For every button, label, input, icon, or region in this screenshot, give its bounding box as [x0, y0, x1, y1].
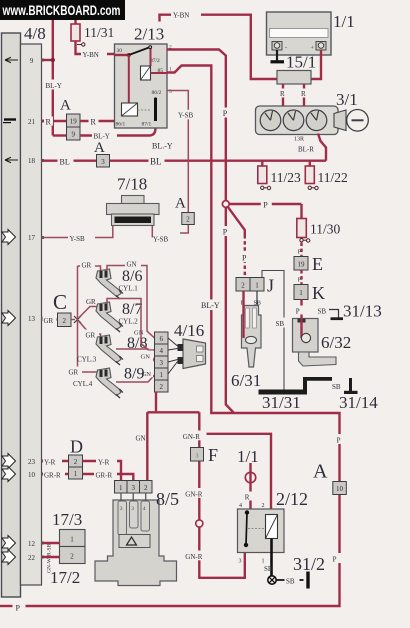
svg-text:R: R — [46, 118, 52, 127]
4/16 plug tabs — [178, 344, 184, 351]
label BL-Y vertical — [45, 80, 69, 90]
svg-text:6/31: 6/31 — [231, 371, 261, 390]
component 17/3 cell — [60, 530, 86, 547]
wire Y-R to 8/5 — [83, 461, 122, 481]
wire P horizontal to fuses — [229, 203, 301, 205]
svg-text:P: P — [333, 555, 337, 563]
svg-text:GN: GN — [136, 435, 146, 443]
8/5 channels — [118, 501, 127, 535]
fuse 11/22 — [305, 166, 314, 184]
wire P dashed to K — [300, 270, 302, 285]
svg-text:GR-R: GR-R — [44, 472, 61, 480]
battery minus ground wire — [276, 50, 278, 61]
connector 4/16 stack — [155, 332, 169, 392]
block arrow pin 17 — [2, 230, 16, 245]
wire SB from 2/12 pin1 — [270, 553, 273, 577]
battery terminal left — [272, 42, 282, 51]
banner www.BRICKBOARD.com — [0, 0, 125, 20]
svg-text:2: 2 — [159, 383, 163, 391]
wire GN 8/9 — [116, 375, 155, 382]
svg-text:A: A — [313, 461, 328, 483]
svg-text:SB: SB — [286, 577, 295, 585]
svg-text:P: P — [296, 307, 300, 315]
svg-text:9: 9 — [30, 57, 34, 65]
wire P relay pin2 vertical — [167, 50, 234, 413]
connector below 11/31 — [77, 44, 82, 46]
ECU 4/8 pin strip — [21, 44, 42, 585]
component 17/2 cell — [60, 547, 86, 564]
component 8/5 body — [95, 500, 177, 586]
connector K box 1 — [294, 285, 308, 300]
label P 1 — [220, 108, 231, 118]
wire Y-SB 7/18 right leg — [151, 226, 153, 238]
label Y-BN — [81, 50, 107, 60]
block arrow pin 10 — [2, 467, 16, 482]
wire BL line to ignition — [110, 159, 327, 161]
svg-text:2: 2 — [262, 503, 265, 509]
svg-text:1: 1 — [74, 470, 78, 478]
svg-text:1/1: 1/1 — [237, 447, 259, 466]
battery plus wire — [311, 50, 321, 79]
svg-text:Y-BN: Y-BN — [83, 51, 99, 59]
svg-text:C: C — [53, 290, 67, 314]
wire Y-SB pin17 — [42, 237, 68, 239]
wire SB to 31/2 — [277, 579, 304, 581]
8/5 pin stubs — [121, 493, 146, 501]
ground junction circle-X — [268, 576, 276, 584]
relay wire down to coil2 — [128, 55, 130, 104]
ignition dial 3 — [306, 110, 327, 131]
component 6/31 — [242, 306, 262, 368]
svg-text:1: 1 — [70, 536, 74, 544]
wire GR stub 8/8 — [79, 322, 101, 342]
label P 2 — [220, 226, 231, 236]
label BL-Y long — [200, 300, 225, 311]
component 7/18 — [107, 196, 160, 226]
svg-text:19: 19 — [298, 261, 306, 269]
label Y-R left — [43, 456, 62, 466]
svg-text:1: 1 — [255, 282, 259, 290]
svg-text:2: 2 — [186, 216, 190, 224]
wire pin12 — [42, 542, 60, 544]
wire Y-R pin23 — [42, 460, 69, 462]
svg-text:17/2: 17/2 — [50, 568, 80, 587]
label GR 8/8 — [84, 330, 99, 339]
svg-text:86/1: 86/1 — [116, 122, 126, 128]
svg-text:31/2: 31/2 — [293, 554, 325, 574]
label SB long — [274, 318, 289, 328]
ignition dial 1 — [260, 110, 281, 131]
label BL-Y — [92, 131, 117, 141]
svg-text:18: 18 — [28, 157, 36, 165]
wire vertical x53 — [52, 20, 54, 136]
svg-text:2/13: 2/13 — [134, 25, 164, 44]
svg-text:Y-SB: Y-SB — [178, 112, 194, 120]
connector below 11/30 — [300, 239, 303, 242]
wire pin22 — [42, 556, 60, 558]
svg-text:P: P — [16, 604, 21, 613]
svg-text:E: E — [312, 254, 323, 274]
svg-text:P: P — [223, 109, 228, 118]
svg-text:SB: SB — [318, 308, 327, 316]
arrow pin 9 — [5, 57, 18, 62]
svg-text:13: 13 — [28, 315, 36, 323]
svg-text:1: 1 — [159, 371, 163, 379]
relay coil 1 — [141, 66, 151, 80]
wire GN-R leg — [199, 412, 245, 578]
svg-text:GR: GR — [44, 317, 54, 325]
connector D box 2 — [69, 455, 83, 467]
wire GR pin13 — [42, 318, 58, 320]
svg-text:A: A — [94, 140, 105, 156]
relay wire 30 in — [115, 54, 129, 56]
label R — [44, 117, 53, 126]
svg-text:9: 9 — [71, 131, 75, 139]
wire GR stub 8/7 — [79, 307, 101, 318]
wire R A19 to relay — [80, 120, 115, 122]
label P 3 — [261, 200, 272, 210]
svg-text:3: 3 — [131, 484, 135, 492]
label GN-R top — [182, 431, 207, 441]
wire ignition out BL-R — [318, 134, 326, 161]
svg-text:2: 2 — [241, 282, 245, 290]
svg-text:P: P — [223, 227, 228, 236]
svg-text:GN-R: GN-R — [185, 553, 202, 561]
svg-text:K: K — [312, 283, 325, 303]
wire GN leg to 8/5 — [146, 412, 148, 481]
wire R left to ignition — [282, 84, 284, 107]
junction dot pin9 — [51, 58, 55, 62]
6/32 circle — [301, 333, 310, 342]
wire 1/1 stub — [249, 463, 251, 509]
connector E box 19 — [294, 257, 308, 271]
wire GN 8/8 — [116, 349, 155, 362]
svg-text:4/16: 4/16 — [174, 321, 204, 340]
label GR-R left — [43, 469, 65, 479]
svg-text:R: R — [245, 493, 250, 501]
wire SB to 31/13 — [329, 310, 339, 318]
stub fuse 11/30 — [300, 204, 302, 219]
wire R pin21 to A19 — [42, 120, 67, 122]
label GN 8/9 — [141, 368, 153, 377]
2/12 dashed link — [248, 528, 266, 530]
svg-text:7/18: 7/18 — [117, 175, 147, 194]
4/16 pin links — [168, 338, 178, 374]
relay 2/12 box — [238, 509, 285, 553]
svg-text:8/7: 8/7 — [122, 301, 142, 318]
svg-text:1/1: 1/1 — [333, 12, 355, 31]
svg-text:BL-R: BL-R — [298, 146, 314, 154]
svg-text:P: P — [263, 201, 268, 210]
svg-text:Y-R: Y-R — [98, 459, 110, 467]
2/12 coil — [266, 515, 278, 539]
svg-text:2: 2 — [62, 317, 66, 325]
label GR pin13 — [43, 315, 57, 325]
junction ring P — [222, 201, 229, 208]
svg-text:3: 3 — [159, 359, 163, 367]
label GN-R low — [184, 551, 209, 561]
label SB 31/2 — [285, 575, 300, 585]
ground 31/13 bar — [331, 317, 344, 320]
ground 31/14 — [349, 378, 352, 391]
svg-text:Y-R: Y-R — [44, 459, 56, 467]
wire GN 8/7 — [107, 299, 155, 351]
svg-text:1: 1 — [119, 484, 123, 492]
wire R right to ignition — [303, 84, 305, 107]
label Y-SB vertical — [177, 110, 199, 120]
wire BL-Y A9 to relay 87/1 — [80, 120, 156, 136]
junction ring GN-R — [196, 520, 203, 527]
svg-text:10: 10 — [28, 471, 36, 479]
svg-text:P: P — [242, 254, 247, 263]
relay junction dot — [127, 53, 131, 57]
mark pin 21 — [4, 118, 16, 120]
svg-text:SB: SB — [264, 565, 273, 573]
label GR-R right — [94, 469, 117, 479]
svg-text:12: 12 — [28, 540, 36, 548]
svg-text:11/23: 11/23 — [271, 170, 301, 185]
fuse 11/31 — [71, 24, 80, 41]
wire SB route around — [262, 271, 284, 390]
fuse 11/23 — [258, 166, 267, 184]
wire Y-BN fuse to relay 30 — [76, 41, 115, 54]
svg-text:R: R — [91, 118, 97, 127]
svg-text:A: A — [175, 196, 186, 212]
fuse 11/30 — [297, 219, 307, 238]
svg-text:GN: GN — [127, 261, 137, 269]
label GN 8/8 — [140, 351, 153, 360]
6/32 wire inside — [300, 319, 302, 339]
svg-text:CYL.3: CYL.3 — [77, 356, 97, 364]
fusebox 15/1 — [277, 71, 311, 85]
wire Y-BN top — [160, 15, 278, 79]
svg-text:3: 3 — [196, 454, 199, 460]
svg-text:GN-R: GN-R — [183, 433, 200, 441]
svg-text:D: D — [70, 437, 83, 457]
svg-text:CYL.2: CYL.2 — [119, 318, 139, 326]
svg-text:GN-W: GN-W — [47, 557, 53, 573]
svg-text:2: 2 — [74, 458, 78, 466]
label GN-R mid — [184, 488, 209, 498]
block arrow pin 12 — [2, 536, 16, 551]
svg-text:22: 22 — [28, 554, 36, 562]
connector A pin 9 box — [67, 127, 81, 140]
wire P dashed to E — [300, 243, 302, 257]
label P 7 — [295, 306, 304, 315]
injector 8/8 — [96, 335, 123, 365]
label R right — [300, 89, 309, 98]
svg-text:31/13: 31/13 — [343, 302, 382, 321]
ignition key trapezoid — [334, 110, 346, 131]
svg-text:10: 10 — [336, 485, 344, 493]
svg-text:R: R — [301, 90, 306, 98]
connector J box 1 — [250, 278, 264, 292]
svg-text:19: 19 — [70, 118, 78, 126]
label R at 2/12 — [244, 492, 253, 501]
svg-text:GR: GR — [86, 298, 96, 306]
ignition switch 3/1 — [256, 106, 339, 135]
svg-text:A: A — [60, 98, 71, 114]
svg-text:13R: 13R — [294, 137, 304, 143]
svg-text:3: 3 — [239, 559, 242, 565]
label GR 8/9 — [67, 367, 82, 376]
8/5 triangle box — [119, 535, 150, 548]
svg-text:23: 23 — [28, 458, 36, 466]
injector 8/7 — [96, 302, 123, 332]
ECU pin numbers — [28, 57, 36, 562]
svg-text:2: 2 — [144, 484, 148, 492]
2/12 coil wire black — [270, 539, 273, 553]
label R left — [279, 89, 288, 98]
battery terminal right — [316, 42, 326, 51]
svg-text:30: 30 — [117, 48, 123, 54]
svg-text:BL: BL — [60, 158, 70, 167]
2/12 contact — [245, 510, 249, 514]
wire P diagonal to J — [228, 207, 245, 235]
svg-text:8/6: 8/6 — [122, 268, 142, 285]
svg-text:CYL.4: CYL.4 — [73, 380, 93, 388]
svg-text:P: P — [337, 436, 341, 444]
connector F box — [191, 448, 204, 462]
svg-text:R-SB: R-SB — [47, 543, 53, 556]
connector D box 1 — [69, 467, 83, 479]
X junction — [74, 316, 81, 323]
wire Y-SB relay 86/2 out — [167, 91, 189, 234]
label BL 2 — [149, 155, 165, 166]
svg-text:86/2: 86/2 — [152, 90, 162, 96]
svg-text:31/31: 31/31 — [262, 393, 301, 412]
connector C box 2 — [58, 313, 72, 327]
stub fuse 11/23 — [261, 161, 263, 166]
connector below 11/22 — [308, 186, 311, 189]
svg-text:BL: BL — [150, 157, 162, 167]
svg-text:GR: GR — [69, 369, 79, 377]
svg-text:BL.-Y: BL.-Y — [152, 142, 173, 151]
svg-text:SB: SB — [276, 320, 285, 328]
svg-text:4: 4 — [159, 347, 163, 355]
6/31 wire P inside — [242, 291, 244, 338]
relay switch contact — [129, 48, 149, 56]
connector below 11/23 — [261, 186, 264, 189]
connector J box 2 — [236, 278, 250, 292]
wire BL pin18 to A3 — [42, 159, 97, 161]
svg-text:Y-BN: Y-BN — [173, 12, 189, 20]
svg-text:3/1: 3/1 — [336, 90, 358, 109]
label GN-W rotated — [47, 557, 53, 573]
svg-text:4: 4 — [143, 506, 146, 512]
label GR 8/7 — [85, 296, 100, 305]
svg-text:6: 6 — [159, 335, 163, 343]
wire GN-R branch to 2/12 — [199, 434, 271, 509]
label Y-R right — [96, 456, 117, 466]
svg-text:J: J — [267, 276, 274, 296]
wire P into 6/32 — [300, 300, 302, 339]
svg-text:11/30: 11/30 — [310, 222, 340, 237]
4/16 plug body — [183, 339, 206, 369]
svg-text:21: 21 — [28, 118, 36, 126]
wire P bottom left stub — [0, 605, 13, 607]
svg-text:GR-R: GR-R — [96, 472, 113, 480]
wire BL-Y long vertical and bottom run — [26, 66, 340, 607]
svg-text:F: F — [208, 445, 218, 465]
connector A pin 3 box — [97, 155, 110, 168]
svg-text:2: 2 — [70, 553, 74, 561]
svg-text:87/2: 87/2 — [150, 58, 160, 64]
ignition dial 2 — [283, 110, 304, 131]
wire GR stub 8/9 — [78, 372, 101, 376]
connector A pin 19 box — [67, 114, 81, 127]
svg-text:www.BRICKBOARD.com: www.BRICKBOARD.com — [2, 2, 121, 18]
svg-text:3: 3 — [101, 158, 105, 166]
svg-text:GN: GN — [134, 330, 144, 337]
svg-text:6/32: 6/32 — [321, 333, 351, 352]
svg-text:SB: SB — [332, 383, 341, 391]
label R-SB rotated — [47, 543, 53, 556]
svg-text:11/22: 11/22 — [318, 170, 348, 185]
wire pin9 to junction — [42, 59, 53, 61]
1/1 lamp ring — [245, 472, 255, 482]
6/32 foot — [299, 352, 337, 366]
relay contact bar 87/1 — [154, 99, 157, 121]
wire GR stub 8/6 — [78, 266, 101, 272]
8/5 pin strip — [115, 481, 128, 494]
svg-text:CYL.1: CYL.1 — [119, 285, 139, 293]
wire GR riser — [77, 266, 79, 372]
svg-text:GN: GN — [141, 353, 151, 360]
svg-text:1: 1 — [299, 289, 303, 297]
ground 31/2 bar — [306, 572, 309, 589]
relay dashed link — [138, 109, 151, 111]
svg-text:87/1: 87/1 — [142, 122, 152, 128]
wire SB J1 stub — [256, 291, 258, 306]
relay coil 2 — [122, 103, 138, 116]
svg-text:2/12: 2/12 — [276, 489, 308, 509]
svg-text:15/1: 15/1 — [286, 53, 316, 72]
label P 4 — [240, 252, 251, 262]
wire to A9 — [53, 134, 67, 136]
injector 8/9 — [96, 368, 123, 398]
ECU 4/8 outer panel — [2, 33, 21, 597]
label P right vertical lower — [330, 553, 342, 563]
ECU pin ticks — [41, 59, 44, 559]
fuse 11/31 stub top — [74, 20, 76, 24]
relay wire coil to pin85 — [151, 72, 167, 74]
svg-text:Y-SB: Y-SB — [153, 236, 169, 244]
component 6/32 — [293, 319, 319, 353]
svg-text:-: - — [285, 46, 287, 52]
svg-text:GR: GR — [82, 262, 92, 270]
6/31 ellipse — [246, 336, 257, 343]
svg-text:R: R — [280, 90, 285, 98]
wire GR-R to 8/5 — [83, 474, 134, 481]
label P right vertical upper — [334, 434, 346, 444]
svg-text:17: 17 — [28, 234, 36, 242]
svg-text:1: 1 — [262, 559, 265, 565]
battery ground bar — [271, 60, 285, 63]
label R 2 — [89, 117, 99, 127]
label BL 1 — [58, 156, 74, 166]
block arrow pin 13 — [2, 311, 16, 326]
label GR 8/6 — [80, 260, 95, 269]
svg-text:BL-Y: BL-Y — [201, 301, 220, 310]
relay 2/13 box — [115, 44, 168, 128]
connector A box 2 — [182, 213, 195, 225]
connector A box 10 — [333, 482, 347, 495]
wire C to X — [71, 319, 75, 321]
wire GR-R pin10 — [42, 473, 69, 475]
wire 4/16 pin2 down — [155, 392, 157, 411]
wire Y-SB to 7/18 left leg — [95, 226, 113, 238]
